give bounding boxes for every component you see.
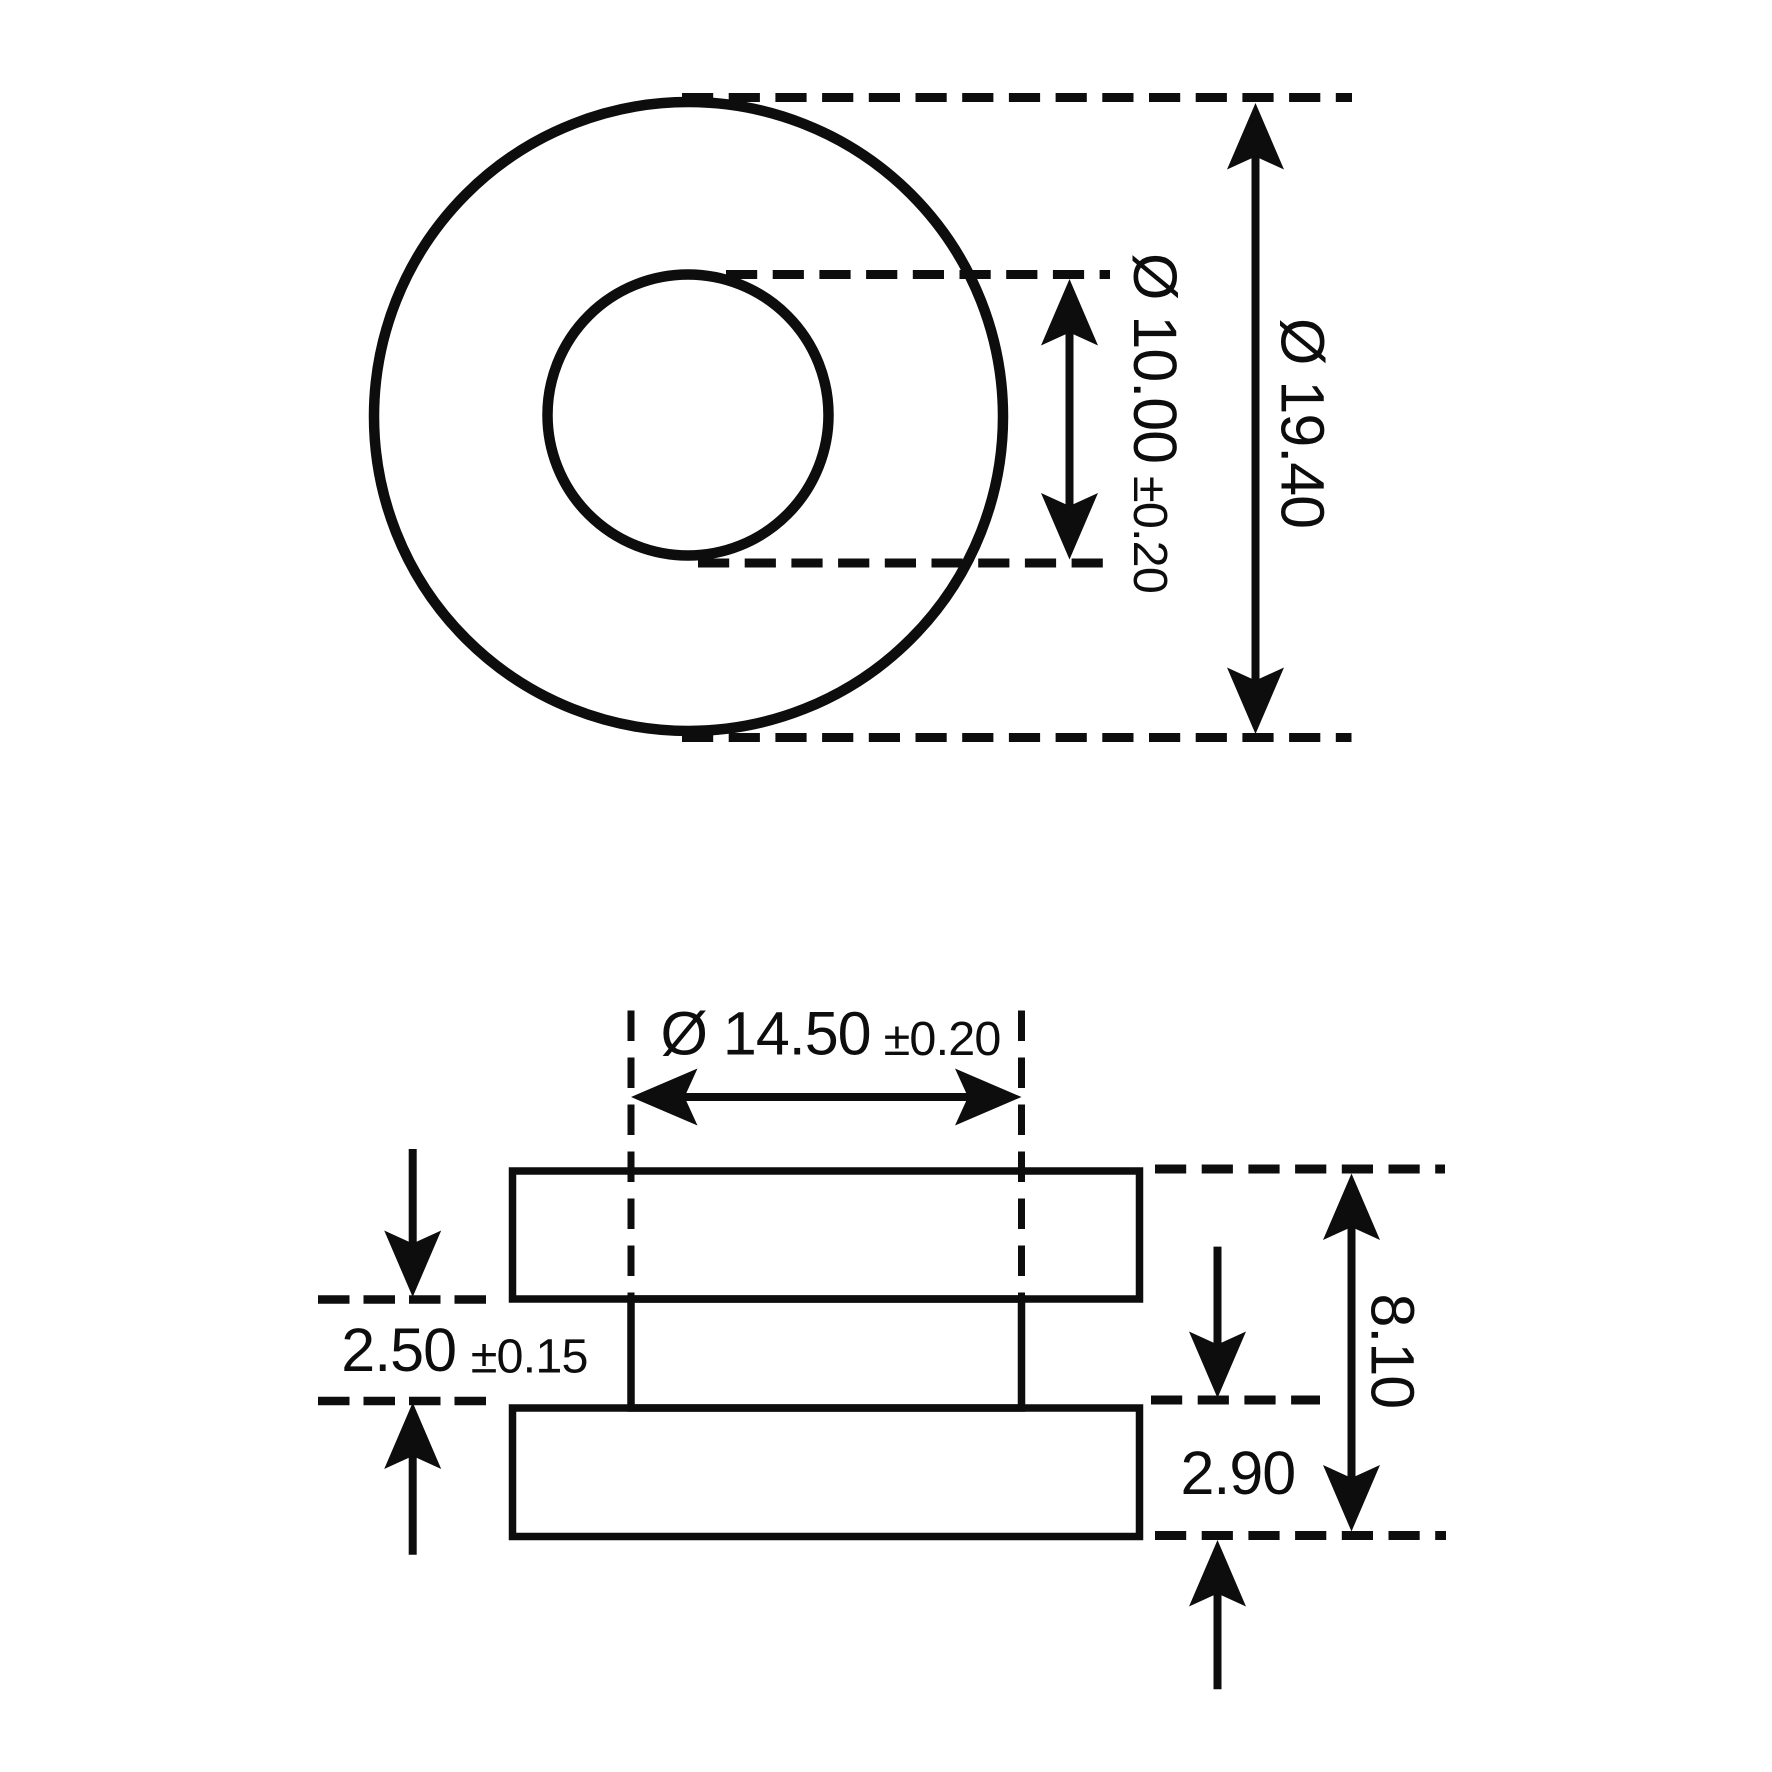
dim line Ø10.00 shaft	[1066, 328, 1074, 510]
arrowheads 8.10	[1323, 1174, 1380, 1241]
arrowhead mid down	[1189, 1332, 1246, 1399]
vertical dashed projection line left (Ø14.50)	[628, 1011, 635, 1302]
left dashed extension (2.50 top)	[318, 1295, 490, 1304]
outer circle (grommet OD, top view)	[374, 102, 1003, 731]
svg-text:8.10: 8.10	[1359, 1294, 1427, 1409]
section view: top flange rectangle	[513, 1171, 1140, 1299]
vertical dashed projection line right (Ø14.50)	[1018, 1011, 1025, 1302]
svg-text:±0.20: ±0.20	[884, 1012, 1001, 1066]
right dashed extension (bottom of flange)	[1155, 1531, 1446, 1540]
mid down arrow shaft (groove depth pointer)	[1214, 1247, 1222, 1348]
arrowheads Ø10.00	[1041, 279, 1098, 346]
inner circle (grommet ID, top view)	[548, 275, 829, 556]
svg-text:Ø 19.40: Ø 19.40	[1269, 318, 1337, 528]
arrowhead 2.50 upper (down)	[384, 1231, 441, 1298]
section view: middle groove rectangle	[631, 1299, 1022, 1408]
svg-text:Ø 14.50: Ø 14.50	[661, 1000, 871, 1068]
dim line 8.10 shaft	[1348, 1224, 1356, 1481]
left dashed extension (2.50 bottom)	[318, 1397, 490, 1406]
section view: bottom flange rectangle	[513, 1408, 1140, 1537]
dim line Ø19.40 shaft	[1252, 152, 1260, 684]
dashed tangent line: bottom of inner circle	[698, 559, 1113, 568]
svg-text:2.50: 2.50	[341, 1316, 456, 1384]
dim line Ø14.50 shaft	[680, 1093, 972, 1101]
arrowhead 2.50 lower (up)	[384, 1403, 441, 1470]
2.50 upper arrow shaft	[409, 1149, 417, 1247]
right dashed extension (top of flange / 8.10)	[1155, 1165, 1445, 1174]
svg-text:±0.20: ±0.20	[1123, 476, 1177, 593]
svg-text:±0.15: ±0.15	[471, 1330, 588, 1384]
svg-text:2.90: 2.90	[1181, 1439, 1296, 1507]
arrowheads Ø19.40	[1227, 103, 1284, 170]
svg-text:Ø 10.00: Ø 10.00	[1121, 253, 1189, 463]
dashed tangent line: bottom of outer circle	[682, 733, 1352, 742]
dashed tangent line: top of inner circle	[726, 270, 1110, 279]
arrowhead bottom up	[1189, 1540, 1246, 1607]
right dashed extension (groove bottom / 2.90)	[1151, 1396, 1320, 1405]
2.50 lower arrow shaft	[409, 1452, 417, 1555]
arrowheads Ø14.50	[631, 1069, 698, 1126]
bottom up arrow shaft (2.90 pointer)	[1214, 1589, 1222, 1689]
dashed tangent line: top of outer circle	[682, 93, 1352, 102]
